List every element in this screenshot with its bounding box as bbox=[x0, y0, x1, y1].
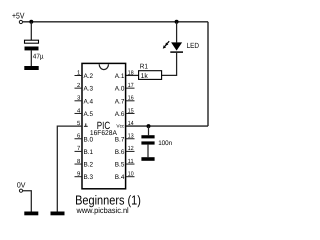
capacitor C2 100n plate 1 bbox=[141, 135, 154, 138]
svg-text:13: 13 bbox=[128, 133, 134, 140]
node junction B (+5V to LED) bbox=[175, 20, 179, 24]
svg-text:Vcc: Vcc bbox=[116, 124, 125, 130]
IC notch bbox=[99, 64, 108, 69]
svg-text:A.3: A.3 bbox=[84, 86, 94, 93]
ground bar (C2) bbox=[141, 157, 154, 161]
svg-text:A.6: A.6 bbox=[115, 111, 125, 118]
wire junction to capacitor C2 bbox=[148, 126, 150, 135]
LED D1 triangle bbox=[171, 42, 182, 50]
left pin stubs 1-4,6-9 bbox=[75, 76, 83, 177]
svg-text:0V: 0V bbox=[17, 180, 26, 189]
wire LED to resistor bbox=[162, 53, 177, 76]
svg-text:B.1: B.1 bbox=[84, 149, 94, 156]
LED D1 emission arrows bbox=[163, 41, 169, 49]
svg-text:B.5: B.5 bbox=[115, 162, 125, 169]
svg-text:B.0: B.0 bbox=[84, 136, 94, 143]
LED D1 cathode bar bbox=[170, 51, 183, 53]
ground bar (0V) bbox=[24, 212, 38, 216]
svg-text:15: 15 bbox=[128, 107, 134, 114]
IC U1 PIC16F628A body bbox=[82, 63, 126, 188]
svg-text:A.2: A.2 bbox=[84, 73, 94, 80]
pin 5 Vss symbol bbox=[84, 123, 88, 126]
svg-text:B.3: B.3 bbox=[84, 174, 94, 181]
right pin stubs 17,16,15,13,12,11,10 bbox=[126, 88, 135, 177]
wire C1 to ground bbox=[30, 50, 32, 66]
pin numbers right bbox=[128, 69, 134, 177]
wire +5V to LED bbox=[176, 22, 178, 43]
svg-text:A.4: A.4 bbox=[84, 98, 94, 105]
pin labels left inside bbox=[84, 73, 94, 181]
ground bar (Vss) bbox=[51, 212, 65, 216]
resistor R1 body bbox=[139, 71, 162, 80]
pin labels right inside bbox=[115, 73, 125, 181]
pin numbers left bbox=[77, 69, 81, 177]
wire right rail down bbox=[207, 22, 209, 126]
wire +5V rail top bbox=[23, 21, 208, 23]
svg-text:12: 12 bbox=[128, 145, 134, 152]
capacitor C2 100n plate 2 bbox=[141, 141, 154, 144]
svg-text:A.0: A.0 bbox=[115, 86, 125, 93]
svg-text:B.2: B.2 bbox=[84, 162, 94, 169]
svg-text:47µ: 47µ bbox=[33, 53, 44, 60]
svg-text:A.7: A.7 bbox=[115, 98, 125, 105]
svg-text:A.1: A.1 bbox=[115, 73, 125, 80]
svg-text:www.picbasic.nl: www.picbasic.nl bbox=[76, 206, 129, 215]
svg-text:100n: 100n bbox=[158, 140, 172, 147]
ground bar (C1) bbox=[24, 66, 38, 70]
svg-text:B.6: B.6 bbox=[115, 149, 125, 156]
wire Vdd pin14 to right rail bbox=[126, 125, 208, 127]
svg-text:14: 14 bbox=[128, 120, 134, 127]
svg-text:16F628A: 16F628A bbox=[90, 130, 117, 137]
node junction C (Vdd / 100n) bbox=[147, 124, 151, 128]
svg-text:A.5: A.5 bbox=[84, 111, 94, 118]
capacitor C1 47u positive plate bbox=[25, 40, 39, 43]
svg-text:Beginners (1): Beginners (1) bbox=[75, 192, 141, 207]
node junction A (+5V to 47u) bbox=[29, 20, 33, 24]
wire C2 to ground bbox=[147, 145, 149, 158]
svg-text:10: 10 bbox=[128, 171, 134, 178]
svg-text:11: 11 bbox=[128, 158, 134, 165]
svg-text:1k: 1k bbox=[141, 72, 149, 80]
wire pin5 Vss to ground bbox=[57, 126, 82, 211]
wire pin18 to resistor R1 bbox=[126, 74, 139, 76]
+5V terminal circle bbox=[19, 20, 22, 23]
wire +5V to capacitor C1 bbox=[30, 22, 32, 40]
svg-text:17: 17 bbox=[128, 82, 134, 89]
svg-text:B.7: B.7 bbox=[115, 136, 125, 143]
capacitor C1 47u negative plate bbox=[25, 47, 39, 51]
svg-text:B.4: B.4 bbox=[115, 174, 125, 181]
svg-text:16: 16 bbox=[128, 95, 134, 102]
svg-text:+5V: +5V bbox=[12, 10, 25, 20]
wire 0V to ground bbox=[23, 191, 32, 212]
0V terminal circle bbox=[19, 189, 22, 192]
svg-text:LED: LED bbox=[187, 41, 200, 50]
svg-text:R1: R1 bbox=[140, 64, 148, 71]
svg-text:18: 18 bbox=[128, 69, 134, 76]
